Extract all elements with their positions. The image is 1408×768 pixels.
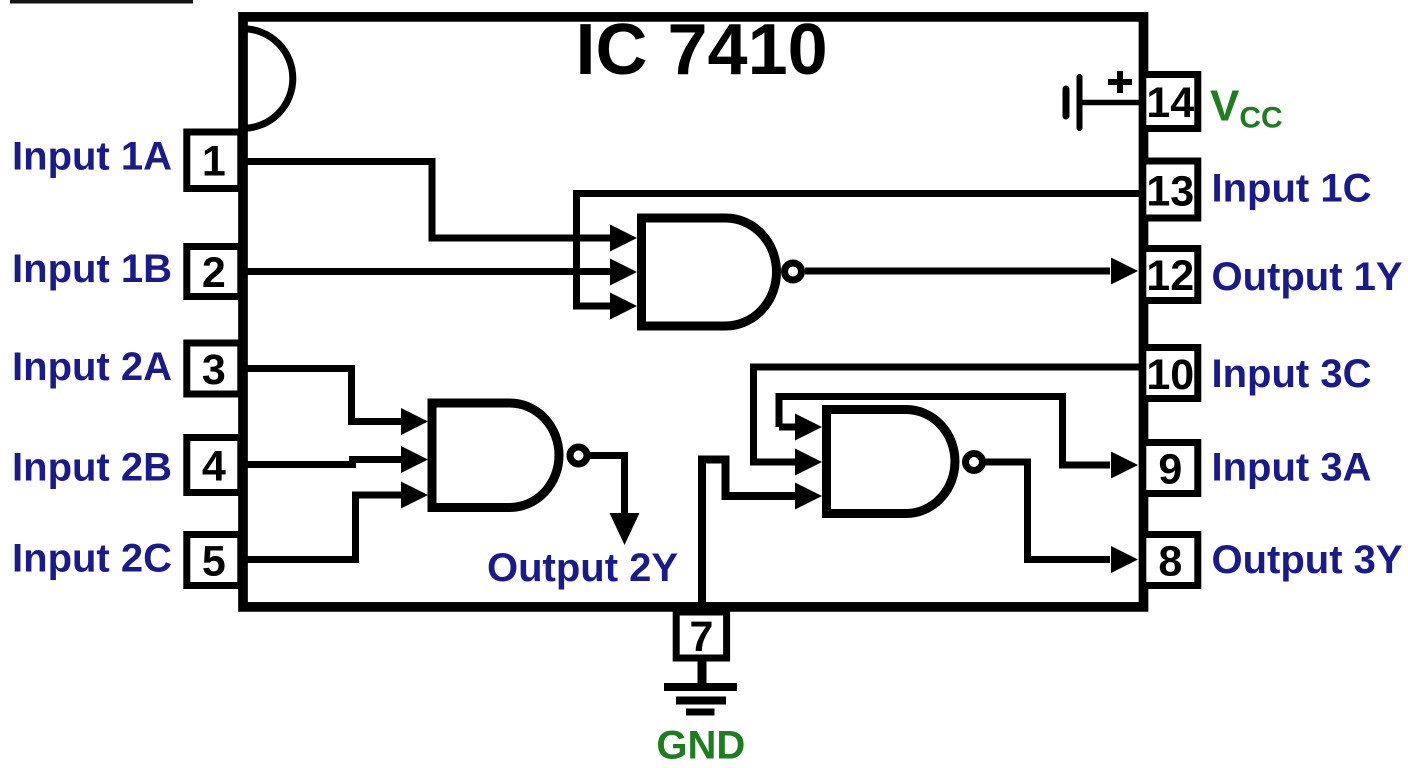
svg-text:Output 2Y: Output 2Y <box>487 546 678 590</box>
svg-text:4: 4 <box>202 443 226 491</box>
svg-text:Input 2C: Input 2C <box>12 537 172 581</box>
svg-text:GND: GND <box>656 723 745 767</box>
svg-text:IC 7410: IC 7410 <box>576 10 828 90</box>
svg-text:13: 13 <box>1146 168 1194 216</box>
svg-text:Input 1B: Input 1B <box>12 247 172 291</box>
svg-text:Input 3A: Input 3A <box>1212 445 1372 489</box>
svg-text:12: 12 <box>1146 252 1194 300</box>
svg-text:7: 7 <box>689 613 713 661</box>
svg-text:Input 1C: Input 1C <box>1212 167 1372 211</box>
svg-text:8: 8 <box>1158 538 1182 586</box>
svg-text:10: 10 <box>1146 351 1194 399</box>
svg-text:Input 2B: Input 2B <box>12 446 172 490</box>
svg-text:1: 1 <box>202 138 226 186</box>
svg-text:14: 14 <box>1146 79 1194 127</box>
svg-text:Input 2A: Input 2A <box>12 345 172 389</box>
svg-text:2: 2 <box>202 249 226 297</box>
svg-text:3: 3 <box>202 346 226 394</box>
svg-text:9: 9 <box>1158 446 1182 494</box>
svg-text:Output 3Y: Output 3Y <box>1212 538 1403 582</box>
svg-text:5: 5 <box>202 538 226 586</box>
svg-text:Input 3C: Input 3C <box>1212 352 1372 396</box>
svg-text:Output 1Y: Output 1Y <box>1212 255 1403 299</box>
svg-text:Input 1A: Input 1A <box>12 135 172 179</box>
